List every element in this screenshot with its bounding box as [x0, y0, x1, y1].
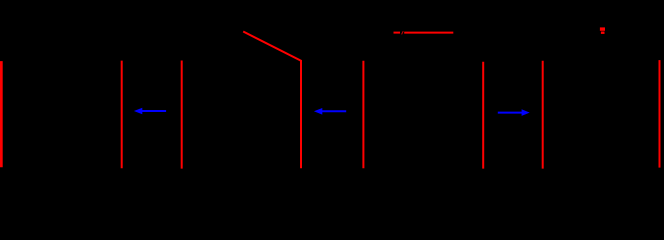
horizontal level segment H2 [404, 32, 453, 34]
slanted level line D1 with vertical drop V4 [243, 32, 301, 169]
level line V6 [482, 62, 484, 169]
transition arrow A2 (blue, pointing left, between V4 and V5) [314, 108, 346, 115]
level line V7 [542, 61, 544, 169]
horizontal level segment H1 [394, 32, 401, 34]
level line V5 [362, 61, 364, 169]
level line V2 [121, 61, 123, 169]
level line V8 (right side) [659, 60, 661, 168]
small red marker glyph [600, 27, 605, 34]
level line V3 [181, 61, 183, 169]
tick mark between H1 and H2 [402, 31, 404, 34]
transition arrow A1 (blue, pointing left, between V2 and V3) [134, 108, 166, 115]
transition arrow A3 (blue, pointing right, between V6 and V7) [498, 109, 530, 116]
level line V1 (left edge, clipped) [0, 61, 3, 167]
